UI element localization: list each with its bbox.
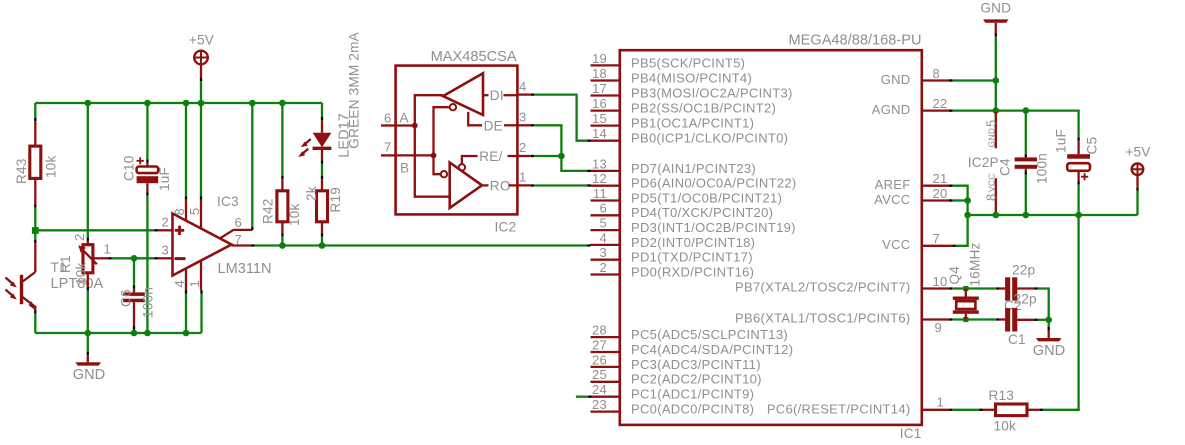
svg-text:R43: R43 <box>14 158 29 184</box>
svg-text:B: B <box>400 161 409 176</box>
wire bus down to C10 <box>146 103 148 160</box>
svg-text:5: 5 <box>983 119 998 127</box>
svg-text:2: 2 <box>72 233 87 241</box>
wire pin1 to R13 <box>949 409 952 411</box>
svg-text:10k: 10k <box>994 419 1017 434</box>
capacitor C5 (1uF polarized) <box>1077 137 1079 140</box>
IC1 pin 23 PC0 stub <box>591 410 620 412</box>
svg-text:PB4(MISO/PCINT4): PB4(MISO/PCINT4) <box>631 70 752 85</box>
svg-text:VCC: VCC <box>987 173 997 192</box>
junction AGND net at C4 column <box>1023 107 1030 114</box>
junction AGND net at IC2P column <box>993 107 1000 114</box>
capacitor C6 (100n) <box>133 289 135 293</box>
svg-text:DI: DI <box>490 88 504 103</box>
resistor R19 <box>321 179 323 191</box>
IC3 pin 4 stub <box>185 268 187 290</box>
svg-text:6: 6 <box>235 215 243 230</box>
svg-text:PD6(AIN0/OC0A/PCINT22): PD6(AIN0/OC0A/PCINT22) <box>631 176 797 191</box>
svg-text:1uF: 1uF <box>157 167 172 191</box>
potentiometer R1 (trimmer) <box>87 241 89 245</box>
junction R1 wiper / C6 <box>131 255 138 262</box>
IC1 pin 18 PB4 stub <box>591 79 620 81</box>
svg-text:C5: C5 <box>1085 137 1100 155</box>
wire bus down to IC3 pin 6 <box>251 103 253 227</box>
svg-text:PC4(ADC4/SDA/PCINT12): PC4(ADC4/SDA/PCINT12) <box>631 342 793 357</box>
wire T1 emitter to ground bus <box>34 311 36 314</box>
svg-text:1: 1 <box>104 242 112 257</box>
IC2 B net: junction and branches <box>431 153 437 159</box>
svg-text:PC2(ADC2/PCINT10): PC2(ADC2/PCINT10) <box>631 372 762 387</box>
IC1 pin 17 PB3 stub <box>591 94 620 96</box>
svg-text:PC6(/RESET/PCINT14): PC6(/RESET/PCINT14) <box>767 401 911 416</box>
svg-text:PD3(INT1/OC2B/PCINT19): PD3(INT1/OC2B/PCINT19) <box>631 220 796 235</box>
svg-text:11: 11 <box>593 186 607 201</box>
junction AVCC / AREF vertical <box>964 197 971 204</box>
svg-text:IC3: IC3 <box>217 194 239 209</box>
svg-text:10: 10 <box>933 274 948 289</box>
IC3 pin 3 stub <box>158 257 173 259</box>
IC2 pin 3 DE stub <box>517 124 531 126</box>
IC1 pin 21 AREF stub <box>922 185 953 187</box>
IC3 pin 8 stub <box>185 200 187 222</box>
svg-text:PB5(SCK/PCINT5): PB5(SCK/PCINT5) <box>631 55 745 70</box>
wire bus down to R43 <box>34 103 36 118</box>
svg-text:16: 16 <box>592 96 607 111</box>
junction output net / R42 <box>279 242 286 249</box>
svg-text:IC2: IC2 <box>495 220 517 235</box>
IC1 pin 3 PD1 stub <box>591 259 620 261</box>
svg-text:1: 1 <box>519 170 527 185</box>
resistor R42 <box>281 179 283 191</box>
svg-text:18: 18 <box>592 66 607 81</box>
svg-text:14: 14 <box>592 126 607 141</box>
wire pin22 AGND horizontal to C5 <box>949 109 952 111</box>
wire +5V stem to top bus <box>200 64 202 78</box>
wire GND stem <box>87 333 89 352</box>
svg-text:19: 19 <box>592 51 607 66</box>
svg-text:DE: DE <box>484 118 503 133</box>
svg-text:22p: 22p <box>1014 292 1037 307</box>
IC2 pin B (7) stub <box>381 154 396 156</box>
svg-text:7: 7 <box>384 140 392 155</box>
svg-text:10k: 10k <box>287 203 302 226</box>
svg-text:AGND: AGND <box>872 102 911 117</box>
wire R42 bottom to output net <box>281 234 283 237</box>
transistor T1 (LPT80A phototransistor) <box>34 243 36 272</box>
wire IC3 output to IC1 PD2 <box>252 244 255 246</box>
T1 light arrow 2 <box>6 290 14 297</box>
capacitor C4 (100n) <box>1015 157 1037 161</box>
IC1 pin 24 net stub <box>576 396 588 398</box>
svg-text:7: 7 <box>235 232 243 247</box>
svg-text:100n: 100n <box>1034 153 1049 184</box>
R1 wiper (pin 1) <box>93 257 109 259</box>
wire R1 bottom to ground bus <box>87 287 89 290</box>
IC1 pin 11 PD5 stub <box>591 199 620 201</box>
wire pin10 to crystal and C2 <box>949 287 952 289</box>
junction on top bus at C10 column <box>144 100 151 107</box>
svg-text:12: 12 <box>592 171 607 186</box>
capacitor C2 (22p) <box>1005 277 1010 300</box>
svg-text:3: 3 <box>519 110 527 125</box>
IC1 pin 20 AVCC stub <box>922 199 953 201</box>
svg-text:23: 23 <box>592 397 607 412</box>
svg-text:4: 4 <box>599 230 607 245</box>
LED LED17 <box>321 120 323 133</box>
svg-text:+5V: +5V <box>189 33 214 48</box>
svg-text:PC1(ADC1/PCINT9): PC1(ADC1/PCINT9) <box>631 387 754 402</box>
IC U2: MAX485CSA box <box>396 66 518 215</box>
svg-text:GND: GND <box>881 72 911 87</box>
IC2 pin 4 DI stub <box>517 93 531 95</box>
junction ground bus / IC3 pin4 <box>183 330 190 337</box>
svg-text:24: 24 <box>592 382 607 397</box>
resistor R13 <box>983 409 996 411</box>
svg-text:5: 5 <box>187 207 202 215</box>
IC1 pin 2 PD0 stub <box>591 273 620 275</box>
IC1 pin 12 PD6 stub <box>591 185 620 187</box>
svg-text:6: 6 <box>599 201 607 216</box>
svg-text:10k: 10k <box>74 262 89 285</box>
svg-text:25: 25 <box>592 367 607 382</box>
svg-text:16MHz: 16MHz <box>968 242 983 286</box>
IC1 pin 19 PB5 stub <box>591 64 620 66</box>
IC1 pin 1 PC6 stub <box>922 409 949 411</box>
wire bottom ground bus <box>35 332 201 334</box>
IC1 pin 4 PD2 stub <box>591 244 620 246</box>
junction pin10 / crystal top <box>963 286 968 291</box>
IC3 pin 2 stub <box>158 229 173 231</box>
IC1 pin 10 PB7 stub <box>922 287 949 289</box>
IC1 pin 25 PC2 stub <box>591 381 620 383</box>
IC2 pin 2 RE stub <box>517 155 531 157</box>
svg-text:GND: GND <box>73 367 105 383</box>
wire AVCC join <box>949 199 952 201</box>
junction +5V bus left end <box>964 212 971 219</box>
IC1 pin 5 PD3 stub <box>591 229 620 231</box>
op-amp IC3 LM311N <box>173 214 232 276</box>
IC2 DE inner wire and label <box>468 112 482 125</box>
svg-text:PD2(INT0/PCINT18): PD2(INT0/PCINT18) <box>631 235 755 250</box>
svg-text:C4: C4 <box>998 158 1013 176</box>
IC2 RE/ inner wire, bubble and label <box>459 164 465 170</box>
svg-text:C1: C1 <box>1008 332 1026 347</box>
svg-text:PB7(XTAL2/TOSC2/PCINT7): PB7(XTAL2/TOSC2/PCINT7) <box>735 279 910 294</box>
svg-text:RO: RO <box>490 178 511 193</box>
svg-text:4: 4 <box>172 280 187 288</box>
svg-text:C6: C6 <box>119 289 134 307</box>
svg-text:2k: 2k <box>304 186 319 201</box>
svg-text:1: 1 <box>187 280 202 288</box>
junction ground bus / R1+GND <box>85 330 92 337</box>
wire bus down to R42 <box>281 103 283 176</box>
svg-text:PC0(ADC0/PCINT8): PC0(ADC0/PCINT8) <box>631 402 754 417</box>
wire junction down to C6 <box>133 258 135 285</box>
ground GND (left) <box>76 362 101 365</box>
resistor R43 <box>34 121 36 146</box>
svg-text:22: 22 <box>933 96 948 111</box>
svg-text:PC3(ADC3/PCINT11): PC3(ADC3/PCINT11) <box>631 357 761 372</box>
svg-text:20: 20 <box>933 186 948 201</box>
wire top +5V bus <box>35 102 322 104</box>
wire GND down to pin8/pin22 <box>995 37 997 111</box>
svg-text:RE/: RE/ <box>479 149 502 164</box>
IC1 pin 9 PB6 stub <box>922 318 949 320</box>
svg-text:+5V: +5V <box>1125 145 1150 160</box>
IC2 receiver buffer triangle <box>450 163 482 209</box>
IC1 pin 27 PC4 stub <box>591 351 620 353</box>
svg-text:13: 13 <box>592 156 607 171</box>
svg-text:8: 8 <box>933 66 941 81</box>
wire LED17 cathode to R19 <box>321 160 323 163</box>
svg-text:15: 15 <box>592 111 607 126</box>
IC U1: MEGA48/88/168-PU box <box>620 50 922 425</box>
junction on top bus at R1 column <box>85 100 92 107</box>
junction on top bus at R42 column <box>279 100 286 107</box>
LED17 emission arrow 2 <box>302 149 309 155</box>
svg-text:2: 2 <box>162 215 170 230</box>
svg-text:Q4: Q4 <box>947 266 962 285</box>
IC1 pin 26 PC3 stub <box>591 366 620 368</box>
svg-text:MAX485CSA: MAX485CSA <box>431 49 517 65</box>
IC2 DI inner wire and label <box>483 94 489 96</box>
wire bus down to trimmer R1 <box>87 103 89 237</box>
IC1 pin 7 VCC stub <box>922 245 953 247</box>
svg-text:28: 28 <box>592 323 607 338</box>
wire bus down to IC3 pin 8 <box>185 103 187 197</box>
wire C1 right to gnd junction <box>1017 319 1034 321</box>
wire pin9 to crystal and C1 <box>949 318 952 320</box>
svg-text:2: 2 <box>519 140 527 155</box>
IC1 pin 16 PB2 stub <box>591 109 620 111</box>
wire AREF jog <box>949 185 952 187</box>
junction ground bus / C10 <box>144 330 151 337</box>
wire C4 down to +5V bus <box>1025 169 1027 172</box>
svg-text:GND: GND <box>987 128 997 148</box>
IC2P power pins symbol <box>995 112 997 148</box>
svg-text:22p: 22p <box>1012 263 1035 278</box>
svg-text:8: 8 <box>983 193 998 201</box>
junction output net / R19 <box>319 242 326 249</box>
svg-text:5: 5 <box>599 216 607 231</box>
svg-text:PD1(TXD/PCINT17): PD1(TXD/PCINT17) <box>631 250 753 265</box>
IC1 pin 13 PD7 stub <box>591 170 620 172</box>
wire bus down to IC3 pin 5 <box>200 103 202 197</box>
wire R43 to input node <box>34 208 36 231</box>
wire down to GND symbol <box>1048 320 1050 327</box>
IC3 pin 7 output stub <box>232 244 252 246</box>
IC2 driver buffer triangle <box>443 73 483 115</box>
svg-text:IC1: IC1 <box>900 426 922 441</box>
wire AGND down to C4 <box>1025 111 1027 155</box>
svg-text:R13: R13 <box>989 388 1015 403</box>
IC3 pin 1 stub <box>200 260 202 290</box>
junction +5V bus / C5+R13 <box>1075 212 1082 219</box>
junction C1/C2 ground <box>1045 317 1052 324</box>
svg-text:GREEN 3MM 2mA: GREEN 3MM 2mA <box>347 31 362 148</box>
wire R13 up to +5V bus <box>1040 409 1043 411</box>
junction ground bus / C6 <box>131 330 138 337</box>
svg-text:3: 3 <box>599 245 607 260</box>
svg-text:7: 7 <box>933 231 941 246</box>
wire IC3 pin1 to ground bus <box>200 290 202 293</box>
svg-text:AREF: AREF <box>875 177 911 192</box>
IC1 pin 6 PD4 stub <box>591 214 620 216</box>
svg-text:PD7(AIN1/PCINT23): PD7(AIN1/PCINT23) <box>631 161 756 176</box>
junction on top bus at op-amp pin6 column <box>249 100 256 107</box>
svg-text:A: A <box>400 111 410 126</box>
svg-text:2: 2 <box>599 260 607 275</box>
svg-text:AVCC: AVCC <box>874 192 910 207</box>
wire C5 down to +5V bus <box>1077 171 1079 182</box>
wire RO to IC1 PD6 (pin12) <box>531 184 534 186</box>
svg-text:LM311N: LM311N <box>218 261 272 277</box>
svg-text:PB2(SS/OC1B/PCINT2): PB2(SS/OC1B/PCINT2) <box>631 101 776 116</box>
svg-text:27: 27 <box>592 337 607 352</box>
capacitor C1 (22p) <box>1005 308 1010 331</box>
svg-text:PB1(OC1A/PCINT1): PB1(OC1A/PCINT1) <box>631 116 754 131</box>
wire bus corner down to LED17 <box>321 103 323 117</box>
svg-text:PD5(T1/OC0B/PCINT21): PD5(T1/OC0B/PCINT21) <box>631 190 782 205</box>
power +5V (left supply symbol) <box>194 51 208 65</box>
junction pin9 / crystal bottom <box>963 317 968 322</box>
wire +5V bus (right) <box>968 214 1138 216</box>
capacitor C10 (1uF polarized) <box>146 163 148 167</box>
wire R19 bottom to output net <box>321 234 323 237</box>
svg-text:21: 21 <box>933 171 948 186</box>
wire pin8 GND horizontal <box>949 79 952 81</box>
wire C6 bottom to ground bus <box>133 327 135 330</box>
svg-text:10k: 10k <box>44 155 59 178</box>
svg-text:17: 17 <box>592 81 607 96</box>
junction +5V bus / C4 <box>1023 212 1030 219</box>
svg-text:PD0(RXD/PCINT16): PD0(RXD/PCINT16) <box>631 264 754 279</box>
svg-text:PB0(ICP1/CLKO/PCINT0): PB0(ICP1/CLKO/PCINT0) <box>631 131 788 146</box>
svg-text:MEGA48/88/168-PU: MEGA48/88/168-PU <box>788 33 921 49</box>
svg-text:R42: R42 <box>261 198 276 224</box>
svg-text:4: 4 <box>519 79 527 94</box>
IC2 pin 1 RO stub <box>517 184 531 186</box>
wire input node to IC3 pin2 <box>35 229 154 231</box>
LED17 emission arrow 1 <box>304 139 311 145</box>
wire DI to IC1 PB0 (pin14) <box>531 93 534 95</box>
svg-text:R1: R1 <box>58 255 73 273</box>
IC1 pin 8 GND stub <box>922 79 953 81</box>
IC3 pin 6 bent stub <box>220 230 253 239</box>
IC1 pin 22 AGND stub <box>922 109 953 111</box>
wire C2 right to gnd vertical <box>1017 287 1034 289</box>
svg-text:PB3(MOSI/OC2A/PCINT3): PB3(MOSI/OC2A/PCINT3) <box>631 85 793 100</box>
IC1 pin 15 PB1 stub <box>591 124 620 126</box>
crystal Q4 16MHz <box>965 289 967 297</box>
svg-text:PC5(ADC5/SCLPCINT13): PC5(ADC5/SCLPCINT13) <box>631 327 788 342</box>
svg-text:GND: GND <box>1033 343 1065 359</box>
wire C10 bottom to ground bus <box>146 183 148 192</box>
svg-text:9: 9 <box>935 320 943 335</box>
svg-text:100n: 100n <box>141 287 156 318</box>
svg-text:IC2P: IC2P <box>968 155 999 170</box>
svg-text:3: 3 <box>162 243 170 258</box>
svg-text:VCC: VCC <box>882 237 910 252</box>
IC2 RO inner wire and label <box>482 184 489 186</box>
junction RE / DE net <box>558 153 565 160</box>
wire R1 wiper to IC3 pin3 <box>109 257 112 259</box>
IC2 pin A (6) stub <box>381 124 396 126</box>
svg-text:PD4(T0/XCK/PCINT20): PD4(T0/XCK/PCINT20) <box>631 205 773 220</box>
IC2 A net: junction and branches <box>412 123 418 129</box>
IC1 pin 14 PB0 stub <box>591 140 620 142</box>
svg-text:GND: GND <box>980 1 1011 16</box>
wire IC3 pin4 to ground bus <box>185 290 187 293</box>
svg-text:PB6(XTAL1/TOSC1/PCINT6): PB6(XTAL1/TOSC1/PCINT6) <box>735 310 910 325</box>
svg-text:C10: C10 <box>122 155 137 181</box>
junction GND net at pin8 <box>993 77 1000 84</box>
T1 light arrow 1 <box>6 278 14 285</box>
svg-text:26: 26 <box>592 352 607 367</box>
junction on top bus at op-amp pin5 column <box>198 100 205 107</box>
junction +5V bus / IC2P VCC <box>993 212 1000 219</box>
wire DE to RE junction and to IC1 PD7 (pin13) <box>531 124 534 126</box>
svg-text:6: 6 <box>384 111 392 126</box>
ground GND (crystal caps) <box>1036 338 1061 341</box>
wire node down to T1 collector <box>34 231 36 241</box>
svg-text:8: 8 <box>172 208 187 216</box>
svg-text:R19: R19 <box>328 187 343 213</box>
svg-text:1: 1 <box>937 395 945 410</box>
IC1 pin 24 PC1 stub <box>591 396 620 398</box>
node junction (square) R43/T1/pin2 <box>32 227 39 234</box>
junction on top bus at op-amp pin8 column <box>183 100 190 107</box>
svg-text:1uF: 1uF <box>1053 129 1068 153</box>
IC1 pin 28 PC5 stub <box>591 336 620 338</box>
IC3 pin 5 stub <box>200 200 202 230</box>
power +5V (right supply symbol) <box>1136 191 1138 216</box>
